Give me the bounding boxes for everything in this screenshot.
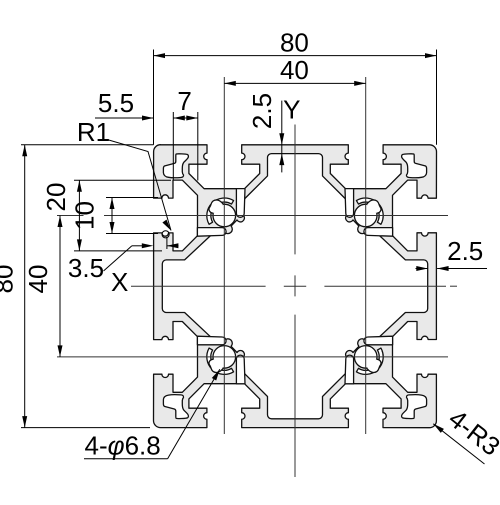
dim 80 left bbox=[24, 145, 26, 428]
svg-text:80: 80 bbox=[0, 265, 19, 294]
node crescent bottom-left bbox=[207, 348, 234, 374]
slot drop wedge h bottom-left bbox=[197, 336, 226, 345]
svg-text:80: 80 bbox=[280, 28, 309, 58]
hole 6.8 bottom-right bbox=[354, 346, 377, 369]
corner cavity bottom-left bbox=[163, 395, 188, 419]
node crescent bottom-right bbox=[356, 348, 383, 374]
svg-text:3.5: 3.5 bbox=[68, 253, 104, 283]
interior cavity bbox=[162, 154, 427, 419]
svg-text:20: 20 bbox=[41, 183, 71, 212]
svg-text:5.5: 5.5 bbox=[98, 88, 134, 118]
slot drop wedge v top-left bbox=[236, 189, 245, 218]
centerlines bbox=[57, 215, 84, 217]
dim 40 left bbox=[59, 216, 61, 357]
node bulge top-right bbox=[367, 200, 381, 213]
dim 40 top bbox=[224, 82, 365, 84]
svg-text:2.5: 2.5 bbox=[447, 236, 483, 266]
slot drop wedge v top-right bbox=[345, 189, 354, 218]
node bulge top-left bbox=[209, 200, 223, 213]
svg-text:40: 40 bbox=[280, 55, 309, 85]
node crescent top-right bbox=[356, 198, 383, 224]
node bulge bottom-right bbox=[367, 359, 381, 372]
slot drop wedge v bottom-left bbox=[236, 355, 245, 384]
corner cavity top-right bbox=[402, 154, 427, 178]
dim 10 left bbox=[111, 198, 113, 234]
dim 80 top bbox=[154, 55, 437, 57]
slot drop wedge h top-right bbox=[364, 228, 393, 237]
node crescent top-left bbox=[207, 198, 234, 224]
label 4-R3 bbox=[433, 424, 484, 464]
dim 5.5 bbox=[95, 117, 154, 119]
hole 6.8 top-right bbox=[354, 204, 377, 227]
hole 6.8 top-left bbox=[213, 204, 236, 227]
svg-text:2.5: 2.5 bbox=[247, 93, 277, 129]
svg-text:7: 7 bbox=[177, 86, 191, 116]
svg-text:4-φ6.8: 4-φ6.8 bbox=[85, 431, 161, 461]
svg-text:R1: R1 bbox=[77, 117, 110, 147]
slot drop wedge v bottom-right bbox=[345, 355, 354, 384]
corner cavity top-left bbox=[163, 154, 188, 178]
svg-text:10: 10 bbox=[70, 201, 100, 230]
profile body bbox=[154, 145, 437, 428]
dim 20 left bbox=[78, 180, 80, 251]
hole 6.8 bottom-left bbox=[213, 346, 236, 369]
node bulge bottom-left bbox=[209, 359, 223, 372]
corner cavity bottom-right bbox=[402, 395, 427, 419]
dim 2.5 right bbox=[437, 268, 487, 270]
dim 7 bbox=[173, 117, 198, 119]
svg-text:X: X bbox=[111, 267, 128, 297]
svg-text:40: 40 bbox=[23, 265, 53, 294]
svg-text:Y: Y bbox=[283, 95, 300, 125]
slot drop wedge h top-left bbox=[197, 228, 226, 237]
dim 2.5 top bbox=[281, 101, 283, 173]
slot drop wedge h bottom-right bbox=[364, 336, 393, 345]
